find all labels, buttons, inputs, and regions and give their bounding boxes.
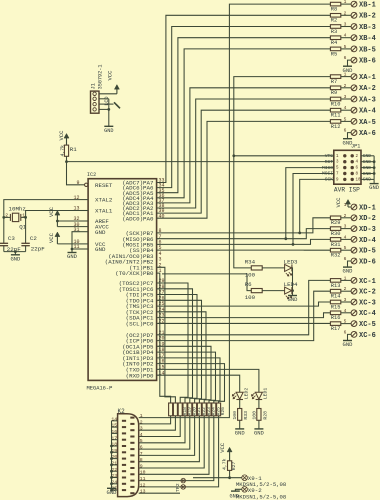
svg-text:GND: GND [254,430,265,437]
svg-text:1: 1 [344,275,347,281]
svg-text:6: 6 [344,55,347,61]
LED LED2 [236,392,243,399]
svg-text:7: 7 [140,451,143,457]
K2 pin 5 [130,442,134,444]
svg-text:R17: R17 [331,326,341,332]
svg-text:100: 100 [245,271,256,278]
svg-text:R14: R14 [331,294,341,300]
pad X9-1 [242,475,248,481]
IC2 pin 10 VCC [80,243,88,245]
resistor R28 100 [258,400,260,409]
wire PA pin 39 net [157,110,331,213]
svg-text:XD-1: XD-1 [359,204,376,212]
wire R27 to X9-1 [229,470,231,477]
wire VTG to JP1 [234,155,334,157]
svg-text:XTAL1: XTAL1 [95,208,113,215]
K2 pin 24 [122,483,126,485]
svg-text:XB-3: XB-3 [359,24,376,32]
svg-text:XB-1: XB-1 [359,2,376,10]
svg-text:R16: R16 [331,315,341,321]
svg-text:2: 2 [5,212,8,218]
wire R28 to ground [258,420,260,429]
ground R33 [235,428,244,430]
resistor R11 [330,108,340,112]
svg-text:R1: R1 [70,146,77,153]
wire XC-6 to ground [348,334,352,340]
svg-text:R28: R28 [262,411,268,420]
wire XD-6 to ground [348,261,352,267]
wire XA-6 to ground [348,133,352,139]
K2 pin 25 [122,489,126,491]
svg-text:XD-6: XD-6 [359,258,376,266]
resistor R1 4,7k [64,145,68,156]
svg-text:XD-5: XD-5 [359,248,376,256]
net flag LCD [114,102,120,108]
svg-text:GND: GND [343,268,354,275]
wire R1 to RESET [67,156,81,185]
svg-text:2: 2 [344,286,347,292]
resistor R8 [330,2,340,6]
pad X9-2 [242,487,248,493]
resistor R15 [330,300,340,304]
svg-text:100: 100 [232,411,238,420]
svg-text:R27: R27 [231,461,237,470]
svg-text:R30: R30 [331,231,341,237]
ground X9-2 [231,490,240,492]
wire feed to resistor row #11 [157,364,225,403]
svg-text:(T0/XCK)PB0: (T0/XCK)PB0 [115,270,154,277]
ground crystal caps [11,254,20,256]
wire PB7/SCK net [157,218,331,233]
svg-text:3: 3 [344,94,347,100]
svg-text:12: 12 [140,482,146,488]
resistor R4 [330,36,340,40]
pad TP2 b [181,485,186,490]
svg-text:R33: R33 [243,411,249,420]
svg-text:10: 10 [140,470,146,476]
connector JP1 AVR ISP [334,150,361,184]
pad XD-4 [341,238,351,240]
wire K2 ground bus [111,421,113,489]
wire JP1 gnd [361,173,374,175]
IC2 pin 30 AVCC [80,226,88,228]
svg-text:4: 4 [344,105,347,111]
wire JP1 gnd [361,167,374,169]
svg-text:GND: GND [369,184,380,191]
svg-text:4: 4 [344,308,347,314]
resistor R24 vertical [207,403,211,416]
svg-text:XA-6: XA-6 [359,130,376,138]
resistor R33 100 [239,400,241,409]
pad XA-5 [341,120,351,122]
resistor R2 [330,14,340,18]
K2 pin 6 [130,448,134,450]
svg-text:GND: GND [67,253,78,260]
svg-text:XB-5: XB-5 [359,46,376,54]
wire JP1 ground bus [373,156,375,180]
svg-text:3: 3 [344,297,347,303]
wire caps to ground [4,251,26,253]
wire feed to resistor row #2 [157,267,176,403]
wire PB6/MISO net [157,229,331,239]
resistor R7 [330,75,340,79]
wire PD7 net to R13 [157,280,331,334]
JP1 pin row 3/4 [343,160,346,163]
svg-text:MKDSN1,5/2-5,08: MKDSN1,5/2-5,08 [236,494,286,500]
svg-text:R2: R2 [331,18,337,24]
K2 pin 21 [122,464,126,466]
JP1 pin row 7/8 [343,172,346,175]
IC2 pin 13 XTAL1 [80,210,88,212]
svg-text:XC-2: XC-2 [359,289,376,297]
svg-text:6: 6 [140,445,143,451]
wire JP1 gnd [361,161,374,163]
wire PD6 net to R14 [157,291,331,340]
resistor R3 [330,25,340,29]
svg-text:5: 5 [344,116,347,122]
svg-text:XA-5: XA-5 [359,119,376,127]
svg-text:GND: GND [235,430,246,437]
ground LED3 LED4 [288,295,297,297]
JP1 pin row 5/6 [343,166,346,169]
svg-text:R15: R15 [331,304,341,310]
svg-text:R9: R9 [331,90,337,96]
K2 pin 23 [122,477,126,479]
wire RST to JP1 [67,161,334,163]
resistor R29 [330,216,340,220]
svg-text:GND: GND [10,255,21,262]
svg-text:3: 3 [344,22,347,28]
wire resistor row #4 to K2 pin 5 [139,416,185,443]
svg-text:10: 10 [356,178,362,182]
wire K2 pin13 stub [139,492,180,494]
wire PC0 net to R17 [157,322,331,324]
K2 pin 14 [122,420,126,422]
svg-text:VCC: VCC [48,232,55,243]
pad XC-1 [341,279,351,281]
IC2 pin 12 XTAL2 [80,199,88,201]
svg-text:XD-3: XD-3 [359,226,376,234]
svg-text:17: 17 [111,435,117,441]
wire resistor row #3 to K2 pin 4 [139,416,181,437]
pad XB-1 [341,3,351,5]
supply VCC pin10 [55,232,60,237]
wire X9-2 to ground [235,489,241,491]
svg-text:R34: R34 [245,259,256,266]
supply VCC R27 [227,447,232,452]
svg-text:4,7k: 4,7k [222,458,228,470]
resistor R23 vertical [202,403,206,416]
wire VCC pin10 [57,243,80,245]
svg-text:10Mhz: 10Mhz [9,206,27,213]
wire PA pin 34 net [157,27,331,188]
svg-text:VCC: VCC [219,442,226,453]
resistor R-row vertical [173,403,177,416]
wire PA pin 40 net [157,121,331,218]
resistor R20 vertical [188,403,192,416]
wire PC1 net to R16 [157,313,331,318]
wire LED3 cathode [291,268,294,296]
pad XB-3 [341,26,351,28]
svg-text:VCC: VCC [48,206,55,217]
wire XB-6 to ground [348,60,352,66]
svg-text:2: 2 [140,419,143,425]
pad XA-2 [341,87,351,89]
pad XC-4 [341,312,351,314]
svg-text:XA-2: XA-2 [359,85,376,93]
wire R33 to ground [239,420,241,429]
K2 pin 3 [130,429,134,431]
wire XTAL1 net [26,211,80,218]
wire feed to resistor row #5 [157,295,197,404]
svg-text:6: 6 [344,329,347,335]
svg-text:R11: R11 [331,113,341,119]
wire PA pin 35 net [157,38,331,193]
K2 pin 7 [130,454,134,456]
svg-text:6: 6 [344,128,347,134]
wire JP1 MOSI [293,174,334,245]
pad TP2 a [181,478,186,483]
svg-text:VCC: VCC [106,70,113,81]
svg-text:R10: R10 [331,101,341,107]
IC2 pin 9 RESET [80,184,85,186]
K2 pin 15 [122,426,126,428]
resistor R22 vertical [197,403,201,416]
wire PD1 to LED1 [157,369,259,392]
svg-text:5: 5 [140,438,143,444]
wire PA pin 33 net [157,15,331,182]
K2 pin 19 [122,451,126,453]
svg-text:GND: GND [95,246,106,253]
resistor R17 [330,322,340,326]
JP1 pin row 1/2 [343,154,346,157]
resistor R27 4,7k [228,461,232,471]
svg-text:R13: R13 [331,283,341,289]
K2 pin 17 [122,439,126,441]
svg-text:GND: GND [288,296,299,303]
svg-text:R12: R12 [331,124,341,130]
wire feed to resistor row #6 [157,300,202,403]
svg-text:XB-2: XB-2 [359,13,376,21]
svg-text:2: 2 [344,10,347,16]
svg-text:4: 4 [344,33,347,39]
svg-text:XB-6: XB-6 [359,58,376,66]
svg-text:4: 4 [140,432,143,438]
resistor R19 vertical [183,403,187,416]
svg-text:8: 8 [140,457,143,463]
wire feed to resistor row #10 [157,358,220,403]
svg-text:GND: GND [104,128,113,134]
K2 pin 10 [130,473,134,475]
svg-text:R3: R3 [331,29,337,35]
svg-text:1: 1 [140,413,143,419]
wire net XB-1 / K2 pin1 vertical [139,4,331,418]
wire JP1 gnd [361,155,374,157]
wire resistor row #2 to K2 pin 3 [139,416,176,430]
pad XC-5 [341,323,351,325]
IC2 pin 31 GND [80,231,88,233]
LED LED1 [255,392,262,399]
svg-text:R31: R31 [331,242,341,248]
ground J1 [104,125,113,127]
wire JP1 MISO [286,168,334,239]
wire PA pin 36 net [157,49,331,198]
wire resistor row #10 to K2 pin 11 [139,416,214,481]
pad XA-4 [341,109,351,111]
svg-text:15: 15 [111,423,117,429]
svg-text:XC-6: XC-6 [359,332,376,340]
svg-text:RESET: RESET [95,182,113,189]
svg-text:LED1: LED1 [263,388,269,400]
K2 pin 2 [130,423,134,425]
wire crystal to caps [3,217,5,243]
wire net XA-1 VTG vertical [234,77,331,268]
svg-text:VCC: VCC [58,130,65,141]
wire PB5/MOSI net [157,239,331,244]
wire feed to resistor row #1 [157,273,171,403]
svg-text:XD-2: XD-2 [359,215,376,223]
connector J1 350792-1 [91,91,100,113]
resistor R12 [330,120,340,124]
K2 pin 16 [122,432,126,434]
supply VCC R1 [64,134,69,139]
supply VCC XD-1 [346,200,351,205]
wire JP1 gnd [361,178,374,180]
supply VCC J1 [114,85,119,90]
svg-text:C2: C2 [30,235,37,242]
IC2 pin 32 AREF [80,220,88,222]
JP1 pin row 9/10 [343,178,346,181]
svg-text:100: 100 [245,294,256,301]
svg-text:XC-4: XC-4 [359,310,376,318]
svg-text:R29: R29 [331,220,341,226]
svg-text:XC-5: XC-5 [359,321,376,329]
svg-text:JP1: JP1 [351,143,360,149]
svg-text:AVR ISP: AVR ISP [334,187,360,194]
wire GND pins 31/11 [72,232,80,253]
pad XD-2 [341,217,351,219]
svg-text:XA-1: XA-1 [359,74,376,82]
svg-text:2: 2 [344,213,347,219]
wire AREF [57,220,80,222]
svg-text:(RXD)PD0: (RXD)PD0 [126,372,154,379]
svg-text:XB-4: XB-4 [359,35,376,43]
svg-text:XTAL2: XTAL2 [95,197,113,204]
svg-text:1: 1 [344,0,347,5]
svg-text:16: 16 [111,429,117,435]
svg-text:4,7k: 4,7k [60,145,66,157]
K2 pin 9 [130,467,134,469]
wire feed to resistor row #3 [157,283,188,403]
pad XB-5 [341,48,351,50]
wire resistor row #8 to K2 pin 9 [139,416,205,468]
svg-text:R8: R8 [331,7,337,13]
svg-text:11: 11 [140,476,146,482]
K2 pin 4 [130,436,134,438]
svg-text:100: 100 [251,411,257,420]
resistor R31 [330,238,340,242]
resistor R18 vertical [178,403,182,416]
wire XD-1 to VCC [348,206,351,208]
svg-text:VCC: VCC [335,197,342,208]
K2 pin 1 [130,417,134,419]
supply VCC AREF/AVCC [55,211,60,216]
ground JP1 [370,183,379,185]
svg-text:5: 5 [344,44,347,50]
svg-text:1: 1 [344,72,347,78]
wire feed to resistor row #9 [157,352,216,403]
svg-text:XC-1: XC-1 [359,278,376,286]
K2 pin 11 [130,480,134,482]
K2 pin 8 [130,461,134,463]
wire AVCC [57,226,80,228]
IC2 pin 11 GND [80,248,88,250]
wire R6 to LED4 [262,290,284,292]
resistor R32 [330,248,340,252]
wire PA pin 37 net [157,88,331,203]
resistor R9 [330,86,340,90]
wire PC3 net to R15 [157,302,331,306]
wire resistor row #5 to K2 pin 6 [139,416,190,449]
resistor R5 [330,47,340,51]
svg-text:GND: GND [107,489,118,496]
wire JP1 SCK [300,179,334,233]
wire J1 pin3 LCD [99,103,114,105]
ground IC2 left [68,252,77,254]
wire feed to resistor row #7 [157,312,206,403]
K2 pin 13 [130,492,134,494]
resistor R21 vertical [193,403,197,416]
ground XA-6 [343,138,352,140]
K2 pin 20 [122,458,126,460]
svg-text:TP2: TP2 [175,483,181,492]
svg-text:R6: R6 [245,281,252,288]
svg-text:GND: GND [95,229,106,236]
pad XB-2 [341,14,351,16]
wire J1 pin1 to VCC [99,93,117,95]
svg-text:3: 3 [344,224,347,230]
svg-text:R4: R4 [331,40,337,46]
resistor R26 vertical [217,403,221,416]
svg-text:22pF: 22pF [31,246,45,253]
svg-text:XC-3: XC-3 [359,299,376,307]
ground XC-6 [343,340,352,342]
wire XTAL2 net [4,200,80,218]
svg-text:5: 5 [344,245,347,251]
svg-text:R26: R26 [220,407,226,416]
wire feed to resistor row #4 [157,289,193,403]
wire R34 to LED3 [262,267,284,269]
pad XA-1 [341,76,351,78]
wire resistor row #6 to K2 pin 7 [139,416,195,456]
svg-text:MEGA16-P: MEGA16-P [87,385,113,391]
svg-text:XA-3: XA-3 [359,96,376,104]
svg-text:GND: GND [343,341,354,348]
resistor R25 vertical [212,403,216,416]
IC U-IC2 MEGA16-P body [88,179,157,381]
ground XB-6 [343,65,352,67]
wire resistor row #7 to K2 pin 8 [139,416,200,462]
resistor R14 [330,289,340,293]
svg-text:3: 3 [140,426,143,432]
wire feed to resistor row #8 [157,346,211,403]
resistor R10 [330,97,340,101]
pad XA-3 [341,98,351,100]
svg-text:LED2: LED2 [243,388,249,400]
svg-text:9: 9 [140,463,143,469]
svg-text:R7: R7 [331,79,337,85]
svg-text:(ADC0)PA0: (ADC0)PA0 [122,215,154,222]
